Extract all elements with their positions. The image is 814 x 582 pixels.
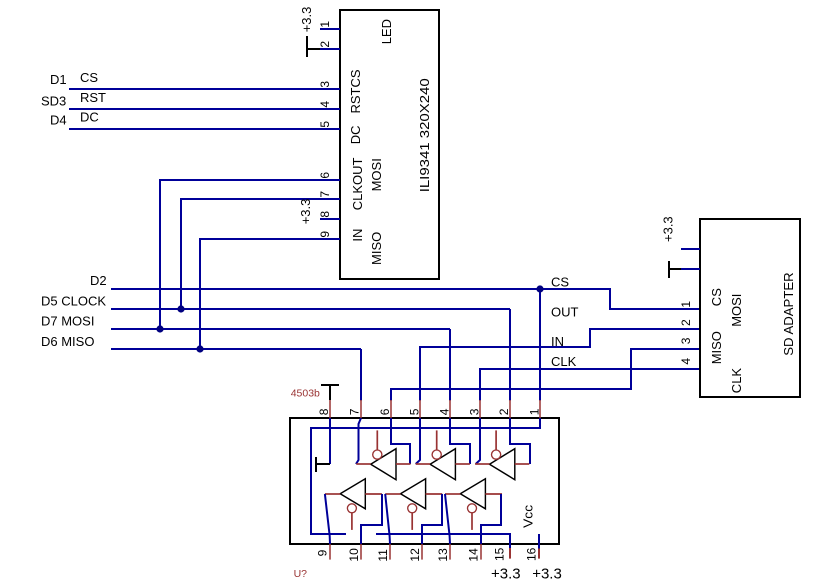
- SD adapter box: [700, 219, 800, 397]
- svg-text:RSTCS: RSTCS: [348, 69, 363, 113]
- internal wire gate4 output to pin9: [325, 494, 330, 544]
- pin 3 stub: [479, 400, 481, 418]
- svg-text:4: 4: [679, 358, 693, 365]
- svg-text:CLK: CLK: [729, 368, 744, 394]
- junction dot D6/ILI pin9: [196, 345, 203, 352]
- internal wire gate3 output to pin3: [476, 418, 480, 464]
- svg-text:11: 11: [376, 549, 390, 562]
- svg-text:+3.3: +3.3: [491, 565, 521, 582]
- pin 1 (ILI LED) stub: [320, 28, 340, 30]
- wire D2 / CS net to SD pin1: [111, 289, 700, 309]
- svg-text:4503b: 4503b: [291, 388, 320, 400]
- svg-text:U?: U?: [294, 568, 308, 580]
- junction dot D5/ILI pin7: [177, 305, 184, 312]
- wire D5 CLOCK net: [111, 308, 510, 310]
- SD unconnected stub pin: [681, 248, 700, 250]
- svg-text:D6 MISO: D6 MISO: [41, 334, 94, 349]
- svg-text:1: 1: [527, 408, 541, 415]
- svg-text:CS: CS: [709, 288, 724, 306]
- wire IN net: buffer pin5 to SD pin2: [420, 329, 700, 401]
- pin 8 (ILI) stub: [320, 218, 340, 220]
- svg-text:MOSI: MOSI: [369, 158, 384, 191]
- svg-text:6: 6: [378, 408, 392, 415]
- pin 7 stub: [360, 400, 362, 418]
- wire MISO net: buffer pin6 to SD pin3: [391, 349, 700, 401]
- svg-text:CLK: CLK: [551, 354, 577, 369]
- internal disable rail (top + left + bottom-left): [311, 418, 540, 534]
- svg-text:D5 CLOCK: D5 CLOCK: [41, 294, 106, 309]
- svg-text:1: 1: [679, 301, 693, 308]
- pin 10 stub: [360, 544, 362, 560]
- svg-text:MISO: MISO: [709, 331, 724, 364]
- power tap T symbol (buffer pin8 +3.3): [321, 385, 339, 400]
- svg-text:8: 8: [318, 211, 332, 218]
- junction dot D7/ILI pin6: [156, 325, 163, 332]
- buffer gate 2 (top row): [416, 430, 470, 479]
- SD +3.3 pin stub: [681, 268, 700, 270]
- pin 9 stub: [329, 544, 331, 560]
- pin 2 (ILI) stub: [320, 48, 340, 50]
- svg-text:LED: LED: [379, 19, 394, 44]
- svg-text:5: 5: [318, 121, 332, 128]
- buffer U? box: [290, 418, 559, 544]
- pin 3 (ILI) wire CS from D1: [69, 88, 340, 90]
- pin16 internal wire: [538, 534, 540, 549]
- pin 13 stub: [449, 544, 451, 560]
- internal wire pin10 to gate4 input: [361, 494, 382, 544]
- svg-text:D2: D2: [90, 273, 107, 288]
- svg-text:+3.3: +3.3: [298, 199, 313, 225]
- pin 12 stub: [421, 544, 423, 560]
- svg-text:4: 4: [318, 101, 332, 108]
- svg-text:7: 7: [318, 191, 332, 198]
- pin 2 stub: [509, 400, 511, 418]
- buffer bottom pin stubs: [330, 544, 481, 560]
- svg-text:5: 5: [407, 408, 421, 415]
- svg-text:3: 3: [679, 337, 693, 344]
- svg-text:9: 9: [315, 549, 329, 556]
- pin 16 stub: [538, 549, 540, 559]
- pin 4 (ILI) wire RST from SD3: [69, 108, 340, 110]
- pin8 internal wire: [329, 418, 331, 464]
- svg-text:14: 14: [467, 548, 481, 562]
- svg-text:3: 3: [318, 81, 332, 88]
- buffer top pin numbers: [317, 408, 541, 415]
- junction dot CS net / buffer pin1: [536, 285, 543, 292]
- svg-text:+3.3: +3.3: [532, 565, 562, 582]
- pin 5 stub: [419, 400, 421, 418]
- svg-text:15: 15: [492, 547, 506, 561]
- svg-text:OUT: OUT: [551, 305, 579, 320]
- pin 6 stub: [390, 400, 392, 418]
- svg-text:ILI9341 320X240: ILI9341 320X240: [417, 78, 432, 192]
- svg-text:2: 2: [318, 41, 332, 48]
- LCD module ILI9341 box: [340, 10, 439, 279]
- pin 5 (ILI) wire DC from D4: [69, 128, 340, 130]
- wire D6 MISO net: [111, 348, 361, 350]
- svg-text:SD3: SD3: [41, 94, 66, 109]
- pin 1 stub: [539, 400, 541, 418]
- power tap T symbol (ILI pin2 +3.3): [307, 36, 320, 57]
- svg-text:+3.3: +3.3: [299, 7, 314, 33]
- wire D7 MOSI drop to buffer pin4: [449, 329, 451, 401]
- internal disable rail (bottom right, to pin15): [376, 534, 510, 548]
- pin 9 (ILI MISO) wire to D6 MISO net: [200, 239, 340, 349]
- internal wire pin12 to gate5 input: [422, 494, 442, 544]
- pin 14 stub: [480, 544, 482, 560]
- svg-text:CLKOUT: CLKOUT: [350, 158, 365, 211]
- internal wire gate2 output to pin5: [416, 418, 420, 464]
- svg-text:SD ADAPTER: SD ADAPTER: [781, 272, 796, 356]
- power tap T symbol (SD +3.3): [669, 261, 681, 278]
- wire CLK net: buffer pin3 to SD pin4: [480, 369, 700, 401]
- svg-text:IN: IN: [551, 334, 564, 349]
- pin 4 stub: [449, 400, 451, 418]
- svg-text:13: 13: [436, 548, 450, 562]
- internal wire pin14 to gate6 input: [481, 494, 501, 544]
- buffer bottom pin numbers: [315, 547, 538, 561]
- svg-text:MISO: MISO: [369, 232, 384, 265]
- wire D6 MISO drop to buffer pin7: [360, 349, 362, 401]
- svg-text:CS: CS: [80, 70, 98, 85]
- buffer gate 5 (bottom row): [385, 479, 442, 530]
- internal T symbol (pin8): [316, 457, 330, 472]
- svg-text:D1: D1: [50, 72, 67, 87]
- svg-text:16: 16: [525, 547, 539, 561]
- buffer top pin stubs: [330, 400, 540, 418]
- wire D5 CLOCK drop to buffer pin2: [509, 309, 511, 401]
- internal wire pin2 to gate3 input: [510, 418, 530, 464]
- svg-text:10: 10: [347, 548, 361, 562]
- svg-text:12: 12: [408, 548, 422, 562]
- svg-text:DC: DC: [348, 126, 363, 145]
- pin 7 (ILI MOSI) wire to D5 CLOCK net: [181, 199, 340, 309]
- buffer gate 4 (bottom row): [325, 479, 382, 530]
- svg-text:RST: RST: [80, 90, 106, 105]
- wire CS drop to buffer pin1: [539, 289, 541, 401]
- svg-text:6: 6: [318, 172, 332, 179]
- svg-text:D7 MOSI: D7 MOSI: [41, 314, 94, 329]
- svg-text:2: 2: [679, 319, 693, 326]
- buffer gate 3 (top row): [475, 430, 529, 479]
- pin 8 stub: [329, 400, 331, 418]
- svg-text:D4: D4: [50, 112, 67, 127]
- internal wire gate6 output to pin13: [445, 494, 450, 544]
- svg-text:IN: IN: [350, 229, 365, 242]
- svg-text:4: 4: [438, 408, 452, 415]
- svg-text:MOSI: MOSI: [729, 294, 744, 327]
- wire D7 MOSI net: [111, 328, 450, 330]
- svg-text:Vcc: Vcc: [521, 504, 536, 528]
- svg-text:CS: CS: [551, 275, 569, 290]
- pin 11 stub: [389, 544, 391, 560]
- svg-text:3: 3: [467, 408, 481, 415]
- svg-text:8: 8: [317, 408, 331, 415]
- internal wire gate1 output to pin7: [356, 418, 361, 464]
- svg-text:7: 7: [348, 408, 362, 415]
- internal wire gate5 output to pin11: [385, 494, 390, 544]
- internal wire pin6 to gate1 input: [391, 418, 410, 464]
- buffer gate 6 (bottom row): [445, 479, 502, 530]
- pin 15 stub: [509, 548, 511, 559]
- internal wire pin4 to gate2 input: [450, 418, 470, 464]
- svg-text:+3.3: +3.3: [661, 216, 676, 242]
- svg-text:1: 1: [318, 21, 332, 28]
- svg-text:DC: DC: [80, 110, 99, 125]
- svg-text:2: 2: [497, 408, 511, 415]
- buffer gate 1 (top row): [356, 430, 410, 479]
- svg-text:9: 9: [318, 231, 332, 238]
- pin 6 (ILI CLKOUT) wire to D7 MOSI net: [160, 180, 340, 329]
